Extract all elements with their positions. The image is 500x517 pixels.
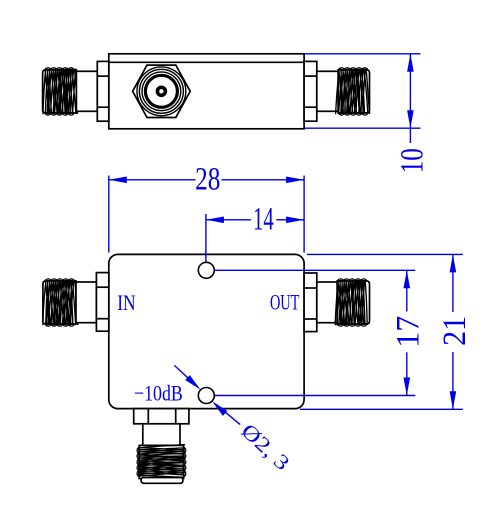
dim 14 line xyxy=(206,219,304,221)
dim 28 arrow left xyxy=(109,177,127,184)
dim 17 line xyxy=(406,270,408,395)
leader arrow lower xyxy=(212,401,227,416)
top view: right SMA thread hatch xyxy=(336,68,370,115)
svg-text:−10dB: −10dB xyxy=(134,381,183,406)
dim 14 extension line xyxy=(205,214,207,262)
front view: right flange facet lines xyxy=(304,288,317,319)
front view: left SMA hex flange xyxy=(96,273,108,332)
dim 17 text xyxy=(391,316,427,348)
label OUT xyxy=(270,290,300,315)
top view: left SMA barrel xyxy=(76,71,97,111)
front view: right SMA thread hatch xyxy=(335,279,367,326)
label -10dB xyxy=(134,381,183,406)
front view: mounting hole top xyxy=(198,262,214,278)
front view: left flange facet lines xyxy=(96,287,108,319)
top view: right SMA hex flange xyxy=(304,61,317,121)
dim 28 line xyxy=(109,179,304,181)
front view: left SMA barrel xyxy=(76,282,96,323)
svg-text:28: 28 xyxy=(195,162,220,198)
dim 10 arrow down xyxy=(407,110,414,128)
dim 21 text xyxy=(437,316,473,346)
dim 10 text xyxy=(394,148,430,173)
dim 21 line xyxy=(452,254,454,409)
dim 10 extension line top xyxy=(305,53,421,55)
top view: right SMA thread shaft xyxy=(338,70,369,113)
front view: bottom flange facet lines xyxy=(148,409,175,424)
top view: right SMA barrel xyxy=(317,71,338,111)
dim 28 extension line right xyxy=(303,176,305,253)
dim 17 extension line bottom xyxy=(214,395,415,397)
leader line upper xyxy=(174,365,197,386)
dim 28 extension line left xyxy=(108,176,110,253)
dim 17 arrow down xyxy=(404,378,411,396)
dim 28 arrow right xyxy=(286,177,304,184)
front view: coupling hole bottom xyxy=(198,388,214,404)
svg-text:Ø2, 3: Ø2, 3 xyxy=(237,419,295,475)
dim 14 arrow left xyxy=(206,217,224,224)
svg-text:17: 17 xyxy=(391,316,427,348)
dim 21 extension line top xyxy=(307,253,463,255)
front view: right SMA thread shaft xyxy=(337,281,369,324)
top view: left flange facet lines xyxy=(97,76,109,107)
dim 10 arrow up xyxy=(407,54,414,72)
top view: center pin xyxy=(156,86,168,98)
dim 21 arrow up xyxy=(450,254,457,272)
front view: bottom port thread hatch xyxy=(137,445,186,478)
top view: left SMA thread shaft xyxy=(43,70,77,113)
front view: coupler body outline xyxy=(109,254,304,408)
dim 10 line xyxy=(409,54,411,143)
top view: right flange facet lines xyxy=(304,76,317,107)
svg-text:OUT: OUT xyxy=(270,290,300,315)
front view: left SMA thread hatch xyxy=(43,279,78,326)
dim 14 text xyxy=(253,202,274,238)
svg-text:14: 14 xyxy=(253,202,274,238)
dim 17 extension line top xyxy=(214,269,415,271)
dim 21 arrow down xyxy=(450,391,457,409)
top view: connector rings xyxy=(137,67,186,116)
dim 10 extension line bottom xyxy=(305,127,421,129)
front view: bottom port barrel xyxy=(143,424,180,446)
front view: bottom port thread shaft xyxy=(139,445,183,478)
label IN xyxy=(117,290,135,315)
svg-text:10: 10 xyxy=(394,148,430,173)
dim 17 arrow up xyxy=(404,270,411,288)
front view: bottom port end cap xyxy=(141,478,183,484)
top view: coupler body outline xyxy=(109,54,304,129)
front view: bottom port hex flange xyxy=(134,409,189,424)
top view: left SMA thread hatch xyxy=(43,68,78,115)
top view: left SMA hex flange xyxy=(97,61,109,121)
front view: right SMA hex flange xyxy=(304,273,317,332)
dim 21 extension line bottom xyxy=(300,408,463,410)
svg-text:21: 21 xyxy=(437,316,473,346)
svg-text:IN: IN xyxy=(117,290,135,315)
leader arrow upper xyxy=(185,375,200,390)
leader line lower xyxy=(216,404,241,425)
top view: vertical port hex nut xyxy=(133,65,191,117)
dim 28 text xyxy=(195,162,220,198)
front view: right SMA barrel xyxy=(317,282,337,323)
top view: body top chamfer line xyxy=(109,61,304,63)
front view: left SMA thread shaft xyxy=(43,281,76,324)
leader text dia 2,3 xyxy=(237,419,295,475)
dim 14 arrow right xyxy=(286,217,304,224)
